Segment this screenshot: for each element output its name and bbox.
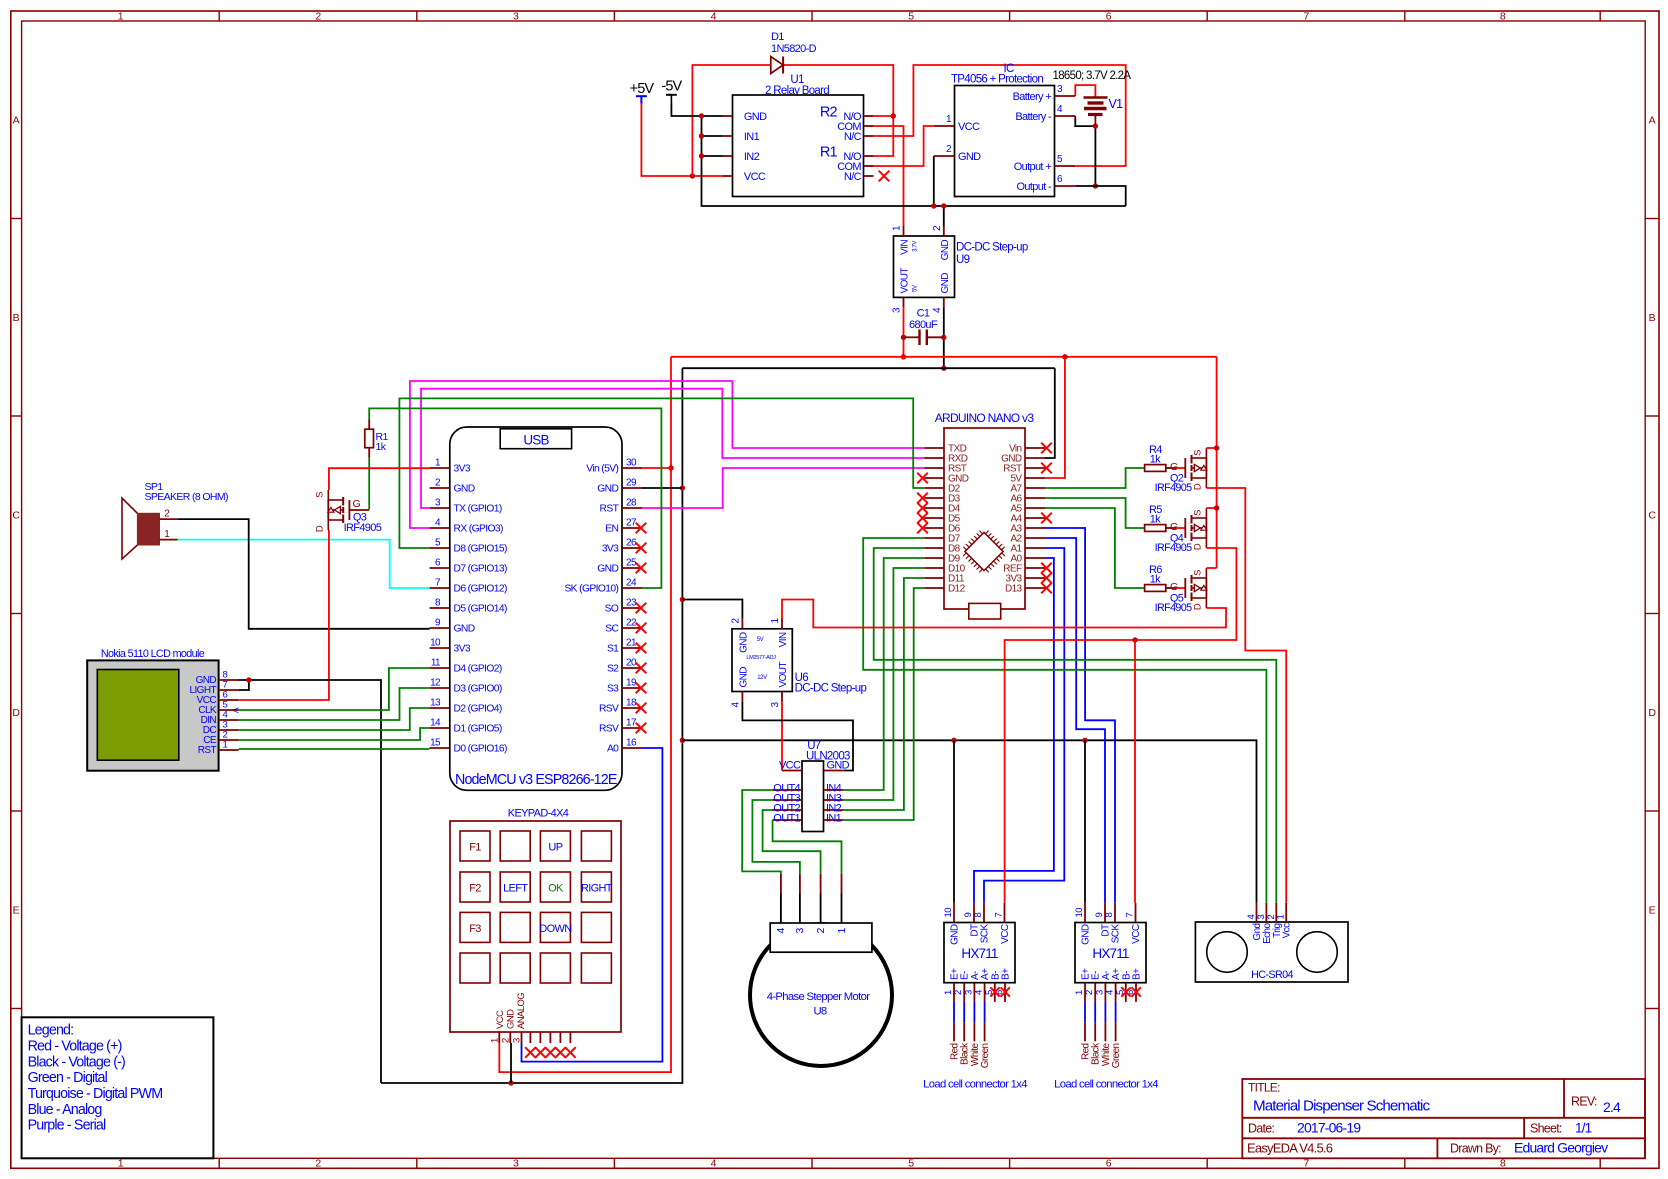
svg-text:680uF: 680uF xyxy=(909,319,938,331)
wire LCD DIN to NodeMCU D3 xyxy=(239,688,430,720)
svg-text:5V: 5V xyxy=(757,637,764,643)
svg-text:Date:: Date: xyxy=(1248,1122,1274,1136)
junction +5V/D1 anode xyxy=(690,173,695,178)
svg-text:VCC: VCC xyxy=(1131,924,1142,944)
junction LCD GND xyxy=(246,677,251,682)
svg-text:8: 8 xyxy=(1500,10,1506,22)
svg-text:VIN: VIN xyxy=(900,240,911,255)
wire Arduino D11 to U7 IN2 xyxy=(844,578,925,810)
svg-text:U8: U8 xyxy=(813,1006,826,1018)
svg-text:SC: SC xyxy=(605,624,619,635)
svg-text:Green - Digital: Green - Digital xyxy=(28,1070,108,1086)
stepper motor U8 4-Phase xyxy=(750,923,892,1066)
transistor Q4 IRF4905 xyxy=(1155,508,1207,554)
svg-text:D13: D13 xyxy=(1005,584,1023,595)
svg-text:GND: GND xyxy=(454,484,475,495)
wire U7 OUT4 to stepper pin4 xyxy=(742,790,781,874)
svg-text:4: 4 xyxy=(711,10,717,22)
wire red 5V bus xyxy=(671,356,1217,358)
svg-text:SPEAKER (8 OHM): SPEAKER (8 OHM) xyxy=(145,491,228,503)
svg-text:OUT1: OUT1 xyxy=(773,813,800,825)
svg-text:ANALOG: ANALOG xyxy=(516,993,527,1029)
junction V1 bottom xyxy=(1093,123,1098,128)
module HX711 2 xyxy=(1074,903,1146,1002)
svg-text:GND: GND xyxy=(739,632,750,653)
svg-text:<: < xyxy=(233,705,239,717)
svg-text:D6 (GPIO12): D6 (GPIO12) xyxy=(454,584,507,595)
junction U9 GND4 at black bus xyxy=(941,366,946,371)
svg-text:S: S xyxy=(1192,450,1203,456)
no-connect X on Arduino left pin D5 xyxy=(917,513,928,524)
legend box xyxy=(22,1017,214,1158)
no-connect X on NodeMCU pin 21 xyxy=(636,643,647,654)
wire Arduino D7 to HC-SR04 Echo xyxy=(863,538,1266,903)
no-connect X on keypad pin xyxy=(565,1047,576,1058)
wire U7 OUT2 to stepper pin2 xyxy=(763,810,821,874)
svg-text:Red - Voltage (+): Red - Voltage (+) xyxy=(28,1038,122,1054)
wire Arduino A0 to HX711-1 DT (analog) xyxy=(974,558,1054,903)
svg-text:HX711: HX711 xyxy=(1092,946,1129,961)
wire Arduino 5V drop xyxy=(1045,357,1065,478)
wire black lower bus xyxy=(682,740,1256,903)
svg-text:DC-DC Step-up: DC-DC Step-up xyxy=(795,683,867,695)
svg-text:8: 8 xyxy=(1104,913,1115,918)
svg-text:S: S xyxy=(1192,510,1203,516)
svg-text:13: 13 xyxy=(430,698,441,709)
junction black trunk to U6 GND2 xyxy=(680,597,685,602)
no-connect X on Arduino right pin RST xyxy=(1041,463,1052,474)
svg-text:S: S xyxy=(314,492,325,498)
resistor R4 1k xyxy=(1145,444,1186,473)
svg-text:3: 3 xyxy=(512,1038,523,1043)
svg-text:24: 24 xyxy=(626,578,637,589)
no-connect X on NodeMCU pin 26 xyxy=(636,543,647,554)
wire NodeMCU D8 to Arduino D2 xyxy=(399,398,924,548)
no-connect X on Arduino right pin REF xyxy=(1041,563,1052,574)
wire stepper column at x=799.9 xyxy=(799,874,801,894)
svg-text:GND: GND xyxy=(827,760,850,772)
svg-text:1: 1 xyxy=(489,1038,500,1043)
svg-text:S: S xyxy=(1192,570,1203,576)
wire HX711-2 GND drop xyxy=(1084,740,1086,903)
svg-text:5V: 5V xyxy=(913,285,919,292)
svg-text:EN: EN xyxy=(605,524,618,535)
svg-text:29: 29 xyxy=(626,478,637,489)
wire NodeMCU TX to Arduino RXD (serial) xyxy=(421,389,924,508)
svg-text:D: D xyxy=(1648,707,1656,719)
wire U9 VOUT to red bus xyxy=(903,307,905,356)
svg-text:1: 1 xyxy=(1276,915,1287,920)
no-connect X on keypad pin xyxy=(525,1047,536,1058)
svg-text:Vcc: Vcc xyxy=(1282,923,1293,938)
svg-text:10: 10 xyxy=(1074,908,1085,918)
module KEYPAD-4X4 xyxy=(450,808,621,1044)
no-connect X on NodeMCU pin 25 xyxy=(636,563,647,574)
svg-text:1k: 1k xyxy=(1150,574,1161,586)
svg-text:GND: GND xyxy=(744,111,767,123)
svg-text:4: 4 xyxy=(711,1158,717,1170)
svg-text:TITLE:: TITLE: xyxy=(1248,1081,1280,1095)
junction black trunk at lower bus xyxy=(680,738,685,743)
wire U7 OUT3 to stepper pin3 xyxy=(752,800,800,874)
module U7 ULN2003 xyxy=(773,740,851,832)
svg-text:IN1: IN1 xyxy=(744,131,760,143)
svg-text:20: 20 xyxy=(626,658,637,669)
svg-text:B+: B+ xyxy=(1001,968,1012,980)
svg-text:15: 15 xyxy=(430,738,441,749)
svg-text:ARDUINO NANO v3: ARDUINO NANO v3 xyxy=(935,411,1035,425)
svg-text:21: 21 xyxy=(626,638,637,649)
svg-text:2: 2 xyxy=(315,10,321,22)
wire V1 negative to TP4056 Battery- xyxy=(1075,116,1095,126)
wire -5V to U1 GND IN1 IN2 and ground bus xyxy=(671,103,723,116)
svg-text:C: C xyxy=(1648,509,1656,521)
svg-text:Output -: Output - xyxy=(1017,181,1052,193)
no-connect X on Arduino left pin D3 xyxy=(917,493,928,504)
svg-text:1N5820-D: 1N5820-D xyxy=(771,43,817,55)
wire Q5 drain to U6 VIN xyxy=(782,600,1226,628)
resistor R6 1k xyxy=(1145,564,1186,593)
wire R1 COM to TP4056 VCC xyxy=(874,126,934,166)
svg-text:C: C xyxy=(12,509,20,521)
svg-text:30: 30 xyxy=(626,458,637,469)
wire Arduino D8 to HC-SR04 Trig xyxy=(874,548,1277,903)
wire V1 bottom to Output- line xyxy=(1094,126,1096,186)
svg-text:HX711: HX711 xyxy=(961,946,998,961)
svg-text:RSV: RSV xyxy=(599,724,619,735)
no-connect X on NodeMCU pin 23 xyxy=(636,603,647,614)
+5V power flag xyxy=(630,81,655,104)
no-connect X on NodeMCU pin 18 xyxy=(636,703,647,714)
wire NodeMCU SK GPIO10 to R1 xyxy=(369,408,661,588)
svg-text:Drawn By:: Drawn By: xyxy=(1450,1142,1501,1156)
junction R2 N/O xyxy=(891,113,896,118)
transistor Q5 IRF4905 xyxy=(1155,568,1207,614)
svg-text:SCK: SCK xyxy=(1111,924,1122,944)
battery V1 18650 xyxy=(1053,70,1132,126)
svg-text:6: 6 xyxy=(1106,1158,1112,1170)
module Nokia 5110 LCD xyxy=(87,648,238,771)
svg-text:12V: 12V xyxy=(757,675,767,681)
svg-text:GND: GND xyxy=(958,151,981,163)
svg-text:3: 3 xyxy=(794,928,806,934)
wire NodeMCU RX to Arduino TXD (serial) xyxy=(410,381,924,528)
svg-text:GND: GND xyxy=(597,484,618,495)
svg-text:Green: Green xyxy=(980,1043,991,1068)
junction NodeMCU GND29 xyxy=(680,485,685,490)
junction Output- node xyxy=(1093,183,1098,188)
junction Q4 source xyxy=(1214,505,1219,510)
svg-text:IRF4905: IRF4905 xyxy=(1155,542,1193,554)
no-connect X on Arduino right pin Vin xyxy=(1041,443,1052,454)
connector Load cell 1x4 (2) xyxy=(1054,1002,1158,1091)
wire U6 VOUT to U7 VCC xyxy=(781,702,783,771)
svg-text:7: 7 xyxy=(1303,1158,1309,1170)
no-connect X on NodeMCU pin 20 xyxy=(636,663,647,674)
svg-text:Load cell connector 1x4: Load cell connector 1x4 xyxy=(1054,1079,1158,1091)
svg-text:VCC: VCC xyxy=(744,171,766,183)
svg-text:6: 6 xyxy=(1106,10,1112,22)
module NodeMCU v3 ESP8266-12E xyxy=(430,427,642,790)
svg-text:27: 27 xyxy=(626,518,637,529)
wire LCD GND and LIGHT to black net xyxy=(239,680,249,690)
svg-text:TP4056 + Protection: TP4056 + Protection xyxy=(951,74,1043,86)
no-connect X on Arduino right pin A4 xyxy=(1041,513,1052,524)
svg-text:A: A xyxy=(1649,114,1656,126)
svg-text:Material Dispenser Schematic: Material Dispenser Schematic xyxy=(1253,1097,1431,1114)
svg-text:Sheet:: Sheet: xyxy=(1530,1122,1562,1136)
wire LCD CLK to NodeMCU D4 xyxy=(239,668,430,710)
svg-text:B: B xyxy=(1649,312,1656,324)
svg-text:-5V: -5V xyxy=(661,79,682,95)
no-connect X on keypad pin xyxy=(555,1047,566,1058)
svg-text:USB: USB xyxy=(523,432,549,447)
wire U6 GND4 to U7 GND xyxy=(742,702,853,771)
svg-text:Legend:: Legend: xyxy=(28,1023,74,1039)
no-connect X on Arduino right pin 3V3 xyxy=(1041,573,1052,584)
wire U9 GND pin2 to ground bus xyxy=(943,206,945,226)
svg-text:GND: GND xyxy=(454,624,475,635)
svg-text:2: 2 xyxy=(500,1038,511,1043)
junction U9 GND pin2 at bus xyxy=(941,203,946,208)
svg-text:8: 8 xyxy=(973,913,984,918)
svg-text:3V3: 3V3 xyxy=(602,544,619,555)
svg-text:VCC: VCC xyxy=(958,121,980,133)
wire U7 OUT1 to stepper pin1 xyxy=(773,820,842,874)
svg-text:G: G xyxy=(1170,521,1178,533)
wire D1 cathode to R2 N/O and R1 N/O xyxy=(783,65,893,156)
wire Arduino D9 to U7 IN4 xyxy=(844,558,925,790)
svg-text:VCC: VCC xyxy=(1000,924,1011,944)
wire Q3 source to NodeMCU 3V3 xyxy=(329,468,430,490)
svg-text:GND: GND xyxy=(940,273,951,294)
no-connect X on NodeMCU pin 17 xyxy=(636,723,647,734)
svg-text:2: 2 xyxy=(815,928,827,934)
title block xyxy=(1242,1079,1645,1158)
svg-text:EasyEDA V4.5.6: EasyEDA V4.5.6 xyxy=(1247,1141,1333,1156)
wire R2 N/C to TP4056 Output+ xyxy=(874,65,1126,166)
no-connect X on HX711 2 B- xyxy=(1121,987,1130,996)
module U9 DC-DC Step-up xyxy=(892,225,1028,313)
svg-text:Output +: Output + xyxy=(1014,161,1051,173)
svg-text:1k: 1k xyxy=(1150,514,1161,526)
svg-text:NodeMCU v3 ESP8266-12E: NodeMCU v3 ESP8266-12E xyxy=(455,772,617,788)
svg-text:D: D xyxy=(1192,543,1203,550)
wire U9 GND4 to black bus xyxy=(943,307,945,368)
junction red bus to Arduino 5V xyxy=(1062,354,1067,359)
wire U1 IN1 link xyxy=(702,135,723,137)
svg-text:Green: Green xyxy=(1111,1043,1122,1068)
svg-text:IN2: IN2 xyxy=(744,151,760,163)
wire D1 anode riser xyxy=(692,65,770,176)
svg-text:7: 7 xyxy=(1303,10,1309,22)
svg-text:2: 2 xyxy=(315,1158,321,1170)
wire Arduino A7 to R4 xyxy=(1045,468,1145,488)
svg-text:LEFT: LEFT xyxy=(503,883,528,895)
svg-text:GND: GND xyxy=(739,667,750,688)
svg-text:U9: U9 xyxy=(956,254,970,266)
svg-text:IRF4905: IRF4905 xyxy=(1155,602,1193,614)
svg-text:V1: V1 xyxy=(1109,97,1124,111)
wire LCD CE to NodeMCU D1pin xyxy=(239,728,430,740)
wire Q3 drain to LCD VCC xyxy=(239,530,329,700)
transistor Q3 IRF4905 xyxy=(314,490,381,534)
svg-text:D2 (GPIO4): D2 (GPIO4) xyxy=(454,704,502,715)
wire U1 IN2 link xyxy=(702,155,723,157)
junction HX711-2 VCC xyxy=(1132,637,1137,642)
svg-text:Nokia 5110 LCD module: Nokia 5110 LCD module xyxy=(101,648,205,660)
svg-text:HC-SR04: HC-SR04 xyxy=(1251,969,1293,981)
junction lower bus HX711-1 GND xyxy=(951,738,956,743)
module HX711 1 xyxy=(943,903,1015,1002)
svg-text:19: 19 xyxy=(626,678,637,689)
svg-text:UP: UP xyxy=(548,842,562,854)
wire Arduino A3 to HX711-2 SCK (analog) xyxy=(1045,528,1115,903)
svg-text:25: 25 xyxy=(626,558,637,569)
svg-text:18: 18 xyxy=(626,698,637,709)
svg-text:+5V: +5V xyxy=(630,81,655,97)
no-connect X on keypad pin xyxy=(545,1047,556,1058)
wire red bus left drop to NodeMCU Vin and keypad VCC xyxy=(499,357,671,1072)
module IC TP4056 + Protection xyxy=(934,63,1076,197)
svg-text:2017-06-19: 2017-06-19 xyxy=(1297,1119,1361,1135)
resistor R5 1k xyxy=(1145,504,1186,533)
wire TP4056 Output- to ground bus xyxy=(1075,186,1125,206)
svg-text:5: 5 xyxy=(908,10,914,22)
wire HX711-2 VCC drop xyxy=(1134,640,1136,903)
no-connect X on Arduino left pin D4 xyxy=(917,503,928,514)
svg-text:10: 10 xyxy=(943,908,954,918)
wire +5V to U1 VCC xyxy=(641,103,723,176)
module ARDUINO NANO v3 xyxy=(924,411,1045,619)
svg-text:Load cell connector 1x4: Load cell connector 1x4 xyxy=(923,1079,1027,1091)
svg-text:VCC: VCC xyxy=(495,1010,506,1029)
svg-text:18650; 3.7V 2.2A: 18650; 3.7V 2.2A xyxy=(1053,70,1132,82)
svg-text:3: 3 xyxy=(513,10,519,22)
svg-text:16: 16 xyxy=(626,738,637,749)
wire Q2 drain to HC-SR04 Vcc xyxy=(1206,488,1286,903)
svg-text:G: G xyxy=(1170,461,1178,473)
svg-text:1/1: 1/1 xyxy=(1575,1120,1592,1135)
svg-text:E: E xyxy=(13,904,20,916)
svg-text:12: 12 xyxy=(430,678,441,689)
svg-text:F1: F1 xyxy=(469,842,481,854)
wire HX711-1 GND drop xyxy=(953,740,955,903)
wire stepper column at x=820.6 xyxy=(820,874,822,894)
wire stepper column at x=780.9 xyxy=(780,874,782,894)
svg-text:DOWN: DOWN xyxy=(539,923,572,935)
svg-text:GND: GND xyxy=(940,240,951,261)
svg-text:Battery +: Battery + xyxy=(1013,91,1052,103)
wire Arduino D12 to U7 IN1 xyxy=(844,588,925,820)
junction U9 VOUT at red bus xyxy=(901,354,906,359)
no-connect X on NodeMCU pin 19 xyxy=(636,683,647,694)
svg-text:10: 10 xyxy=(430,638,441,649)
wire stepper column at x=841.5 xyxy=(841,874,843,894)
svg-text:D1 (GPIO5): D1 (GPIO5) xyxy=(454,724,502,735)
svg-text:4-Phase Stepper Motor: 4-Phase Stepper Motor xyxy=(767,991,870,1003)
junction keypad GND xyxy=(508,1080,513,1085)
svg-text:RX (GPIO3): RX (GPIO3) xyxy=(454,524,504,535)
svg-text:E: E xyxy=(1649,904,1656,916)
svg-text:11: 11 xyxy=(431,658,441,669)
svg-text:KEYPAD-4X4: KEYPAD-4X4 xyxy=(508,808,569,820)
svg-text:28: 28 xyxy=(626,498,637,509)
wire R2 COM to U9 VIN xyxy=(874,126,904,226)
svg-text:GND: GND xyxy=(1081,924,1092,945)
svg-text:D: D xyxy=(314,525,325,532)
svg-text:3: 3 xyxy=(513,1158,519,1170)
wire LCD RST to NodeMCU D0 xyxy=(239,748,430,750)
svg-text:1: 1 xyxy=(118,1158,124,1170)
no-connect X on Arduino left pin D6 xyxy=(917,523,928,534)
module U1 2 Relay Board xyxy=(723,74,874,197)
wire black trunk down left of U6 xyxy=(381,368,682,1083)
svg-text:TX (GPIO1): TX (GPIO1) xyxy=(454,504,502,515)
svg-text:1k: 1k xyxy=(376,441,387,453)
svg-text:S2: S2 xyxy=(607,664,619,675)
svg-text:Vin (5V): Vin (5V) xyxy=(586,464,618,475)
svg-text:SCK: SCK xyxy=(980,924,991,944)
svg-text:GND: GND xyxy=(506,1009,517,1029)
capacitor C1 680uF xyxy=(904,308,944,346)
svg-text:REV:: REV: xyxy=(1571,1095,1597,1109)
svg-text:B: B xyxy=(13,312,20,324)
wire Arduino A1 to HX711-1 SCK (analog) xyxy=(984,548,1064,903)
no-connect X on HX711 1 B+ xyxy=(1001,987,1010,996)
module U6 DC-DC Step-up LM2577 xyxy=(730,618,866,708)
svg-text:4: 4 xyxy=(775,928,787,934)
-5V power flag xyxy=(661,79,682,104)
no-connect X on NodeMCU pin 27 xyxy=(636,523,647,534)
svg-text:D: D xyxy=(1192,603,1203,610)
svg-text:7: 7 xyxy=(994,913,1005,918)
svg-text:GND: GND xyxy=(597,564,618,575)
no-connect X on U1 R1 N/C xyxy=(879,171,890,182)
wire to U6 GND2 xyxy=(682,600,742,619)
svg-text:1k: 1k xyxy=(1150,454,1161,466)
svg-text:SO: SO xyxy=(605,604,619,615)
svg-text:Battery -: Battery - xyxy=(1015,111,1052,123)
svg-text:Blue - Analog: Blue - Analog xyxy=(28,1102,103,1118)
no-connect X on Arduino right pin D13 xyxy=(1041,583,1052,594)
svg-text:D8 (GPIO15): D8 (GPIO15) xyxy=(454,544,507,555)
svg-text:IRF4905: IRF4905 xyxy=(344,522,382,534)
wire R1 bottom to Q3 gate xyxy=(368,458,370,510)
wire Arduino A6 to R5 xyxy=(1045,498,1145,528)
svg-text:Black - Voltage (-): Black - Voltage (-) xyxy=(28,1054,125,1070)
svg-text:3V3: 3V3 xyxy=(454,464,471,475)
svg-text:D0 (GPIO16): D0 (GPIO16) xyxy=(454,744,507,755)
svg-text:DC-DC Step-up: DC-DC Step-up xyxy=(956,242,1028,254)
svg-text:RST: RST xyxy=(198,745,217,756)
svg-text:S3: S3 xyxy=(607,684,619,695)
svg-text:B+: B+ xyxy=(1132,968,1143,980)
svg-text:A0: A0 xyxy=(607,744,619,755)
wire NodeMCU RST to Arduino RST (serial) xyxy=(642,468,924,508)
svg-text:5: 5 xyxy=(908,1158,914,1170)
svg-text:IRF4905: IRF4905 xyxy=(1155,482,1193,494)
no-connect X on HX711 2 B+ xyxy=(1132,987,1141,996)
svg-text:8: 8 xyxy=(1500,1158,1506,1170)
wire black bus drop to Arduino GND xyxy=(1045,368,1055,458)
svg-text:SK (GPIO10): SK (GPIO10) xyxy=(564,584,618,595)
junction Q2 source xyxy=(1214,445,1219,450)
svg-text:Eduard Georgiev: Eduard Georgiev xyxy=(1514,1140,1608,1156)
wire keypad ANALOG to NodeMCU A0 (analog blue) xyxy=(522,748,663,1062)
svg-text:S1: S1 xyxy=(607,644,619,655)
junction C1 left xyxy=(901,335,906,340)
